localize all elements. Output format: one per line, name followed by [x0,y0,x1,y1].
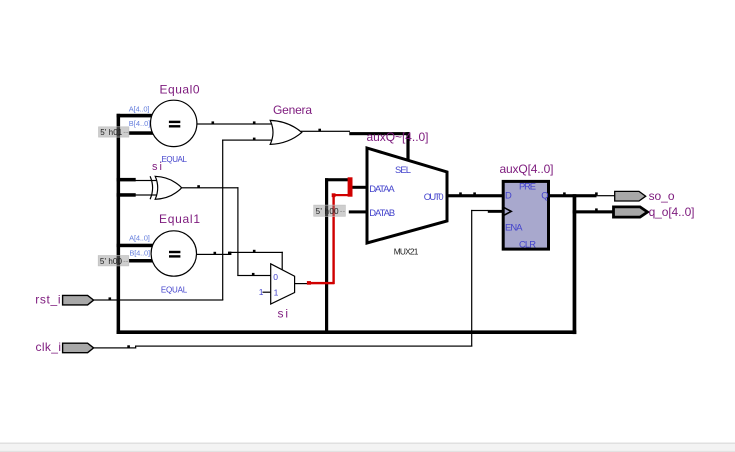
wire tick on clk [127,345,130,348]
wire: si net vertical down to mux input 0 [237,187,238,275]
comparator Equal1 [151,231,196,276]
svg-text:Genera: Genera [273,103,312,117]
wire: clk_i horizontal at pin [94,347,137,348]
svg-text:--: -- [340,207,346,216]
svg-text:auxQ~[4..0]: auxQ~[4..0] [367,130,429,144]
wire tick [595,192,598,195]
svg-text:--: -- [123,128,129,137]
wire tick on rst wire [109,297,112,300]
wire: Equal0 output to OR gate [197,123,274,124]
wire: DATAA merge vertical from auxQ bus [325,178,328,331]
wire: auxQ~ bus horizontal to MUX sel [349,132,409,135]
wire: rst_i to OR gate bottom input horizontal [94,299,224,300]
wire tick [473,192,476,194]
mux si (small) [271,264,295,304]
svg-text:auxQ[4..0]: auxQ[4..0] [500,162,554,176]
wire tick [214,252,217,255]
wire red: DATAA merge bar [348,177,353,196]
svg-text:1: 1 [274,287,279,297]
wire: xor si input stub 1 [117,178,136,182]
wire red: horizontal from si mux [308,282,334,284]
wire red: vertical up [332,195,334,284]
wire: OR gate bottom input horizontal [222,140,273,141]
wire tick [318,129,321,132]
wire tick [253,250,256,253]
input pin clk_i [63,343,94,353]
bottom separator lines [0,443,735,444]
xor gate si [150,176,182,199]
svg-text:DATAB: DATAB [369,207,395,218]
wire: Equal0 B input stub from constant [129,131,154,135]
svg-text:Equal0: Equal0 [160,82,200,96]
wire: so_o thin [597,195,616,196]
wire: MUX DATAB input stub [349,210,369,213]
wire: auxQ bus right vertical from Q [573,194,577,334]
svg-text:1: 1 [259,287,264,297]
or gate Genera [270,120,302,144]
wire red: junction square [332,193,336,197]
constant 5'h01 box [99,127,129,137]
wire tick [212,121,215,124]
svg-text:rst_i: rst_i [35,292,60,306]
wire red: si mux output elbow [307,281,311,285]
output pin q_o (bus, thick border) [614,207,648,217]
svg-text:5' h00: 5' h00 [100,257,123,266]
wire tick [253,138,256,141]
wire tick [197,185,200,188]
wire: MUX sel vertical [406,132,409,162]
wire: Equal1 A input stub [117,244,153,248]
svg-text:MUX21: MUX21 [394,247,419,257]
comparator Equal0 [151,100,197,146]
constant 5'h00 box (MUX) [314,205,346,216]
wire: Equal1 output segment 1 [196,254,229,255]
wire: si mux sel vertical [282,252,283,270]
wire: q_o branch thick [573,210,614,213]
wire: clk vertical [471,210,472,347]
wire tick [595,208,598,210]
wire: rst_i vertical up to OR input [222,140,223,301]
wire: Equal0 A input stub [117,114,153,118]
svg-text:Equal1: Equal1 [159,212,200,226]
wire: xor si bottom input thin [134,194,157,195]
svg-text:.EQUAL: .EQUAL [160,155,188,164]
svg-text:clk_i: clk_i [36,340,62,354]
svg-text:--: -- [123,256,129,265]
svg-text:5' h00: 5' h00 [316,207,340,216]
svg-text:si: si [152,161,162,173]
svg-text:D: D [505,190,512,201]
wire: clk thin horizontal into register [471,210,488,211]
svg-text:Q: Q [541,190,548,201]
svg-text:PRE: PRE [519,180,536,191]
svg-text:si: si [278,307,289,321]
wire: Equal1 B input stub from constant [129,259,154,263]
svg-text:A[4..0]: A[4..0] [129,104,150,113]
wire: clk_i horizontal long [135,346,472,347]
wire junction jog square [228,252,231,255]
register auxQ [502,180,548,249]
wire: Equal1 output segment 2 to si mux sel [229,252,283,253]
svg-text:B[4..0]: B[4..0] [129,248,150,257]
wire tick [563,192,566,194]
wire: DATAA merge horizontal [325,178,349,181]
svg-text:0: 0 [273,272,278,282]
wire: clk jog vertical [135,346,136,349]
wire: xor si input stub 2 [117,193,136,197]
wire: MUX DATAA input stub [351,186,369,189]
wire tick [252,273,255,276]
svg-text:EQUAL: EQUAL [161,285,188,294]
input pin rst_i [63,295,94,305]
wire: auxQ feedback bus bottom horizontal [117,330,577,334]
svg-text:5' h01: 5' h01 [100,128,123,137]
svg-text:SEL: SEL [395,164,411,175]
wire: OUT0 to register D [446,194,504,197]
wire: si mux output thin [294,283,309,284]
wire: clk thick stub at register [488,210,503,213]
svg-text:DATAA: DATAA [369,183,395,194]
output pin so_o [615,191,646,201]
constant 5'h00 box (Equal1) [98,256,129,266]
svg-text:OUT0: OUT0 [424,191,444,202]
mux MUX21 [367,148,447,243]
wire: xor si output horizontal [181,187,239,188]
wire: OR gate output thin [301,131,350,132]
wire tick [253,121,256,124]
wire: auxQ feedback bus left vertical [117,114,121,334]
wire: si mux input 0 horizontal [237,275,271,276]
svg-text:B[4..0]: B[4..0] [129,119,151,128]
wire: si mux constant 1 stub [263,292,272,293]
svg-text:q_o[4..0]: q_o[4..0] [649,205,695,219]
wire tick [459,192,462,194]
svg-text:CLR: CLR [519,238,536,249]
svg-text:so_o: so_o [649,189,675,203]
svg-text:ENA: ENA [505,221,523,232]
svg-text:A[4..0]: A[4..0] [129,233,150,242]
wire: xor si top input thin [134,180,157,181]
wire red: horizontal to DATAA bar [332,194,348,196]
wire: Q output thick [549,194,597,197]
